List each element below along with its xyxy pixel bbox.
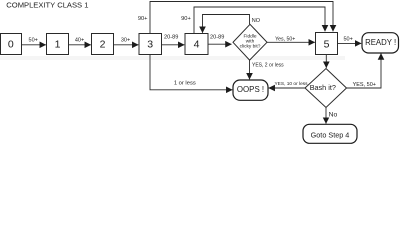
svg-text:YES, 2 or less: YES, 2 or less (252, 62, 284, 68)
svg-text:20-89: 20-89 (164, 35, 178, 41)
svg-text:50+: 50+ (344, 36, 353, 42)
wire bash yes to oops (269, 87, 305, 89)
svg-text:COMPLEXITY CLASS 1: COMPLEXITY CLASS 1 (6, 1, 88, 10)
svg-text:Goto Step 4: Goto Step 4 (311, 130, 350, 139)
svg-text:5: 5 (324, 39, 330, 51)
svg-text:90+: 90+ (138, 16, 148, 22)
wire 0 to 1 (22, 44, 46, 46)
wire no return to 4 (203, 15, 250, 33)
box 2 (92, 34, 114, 55)
diamond bash (305, 69, 347, 108)
box 0 (1, 34, 22, 55)
svg-text:clicky bit?: clicky bit? (240, 44, 261, 50)
svg-text:20-89: 20-89 (210, 35, 224, 41)
wire yes 2 or less to oops (249, 60, 251, 79)
svg-text:2: 2 (100, 38, 106, 50)
svg-text:1 or less: 1 or less (174, 81, 196, 87)
box 1 (47, 34, 69, 55)
terminator oops (233, 80, 268, 100)
svg-text:1: 1 (55, 38, 61, 50)
svg-text:OOPS !: OOPS ! (237, 85, 264, 94)
svg-text:50+: 50+ (29, 37, 38, 43)
svg-text:40+: 40+ (75, 37, 84, 43)
wire 1 to 2 (69, 44, 91, 46)
wire 90+ inner feedback 4 to 5 (194, 7, 325, 34)
svg-text:No: No (329, 111, 338, 118)
svg-text:READY !: READY ! (365, 38, 396, 47)
box 5 (316, 33, 338, 55)
wire 5 to bash (325, 55, 327, 68)
wire diamond yes to 5 (267, 41, 315, 43)
svg-text:4: 4 (194, 38, 200, 50)
wire bash no to goto (325, 108, 327, 124)
svg-text:Bash it?: Bash it? (310, 83, 336, 92)
svg-text:3: 3 (147, 38, 153, 50)
wire 90+ outer feedback 3 to 5 (150, 2, 333, 34)
svg-text:30+: 30+ (121, 37, 130, 43)
svg-text:Yes, 50+: Yes, 50+ (275, 36, 295, 42)
svg-text:NO: NO (252, 18, 261, 24)
wire 1 or less to oops (150, 55, 232, 90)
svg-text:0: 0 (8, 38, 14, 50)
svg-text:YES, 10 or less: YES, 10 or less (274, 81, 308, 87)
svg-text:90+: 90+ (181, 16, 191, 22)
diamond fiddle (233, 24, 267, 60)
wire 2 to 3 (114, 44, 139, 46)
terminator goto step 4 (303, 124, 357, 143)
wire bash yes 50 to ready (347, 54, 382, 89)
svg-text:with: with (246, 38, 255, 44)
box 3 (139, 34, 162, 55)
svg-text:Fiddle: Fiddle (243, 33, 256, 39)
svg-text:YES, 50+: YES, 50+ (353, 82, 376, 88)
wire 5 to ready (338, 42, 362, 44)
box 4 (185, 34, 208, 55)
wire 4 to diamond (208, 43, 232, 45)
wire 3 to 4 (162, 44, 185, 46)
terminator ready (362, 33, 399, 53)
